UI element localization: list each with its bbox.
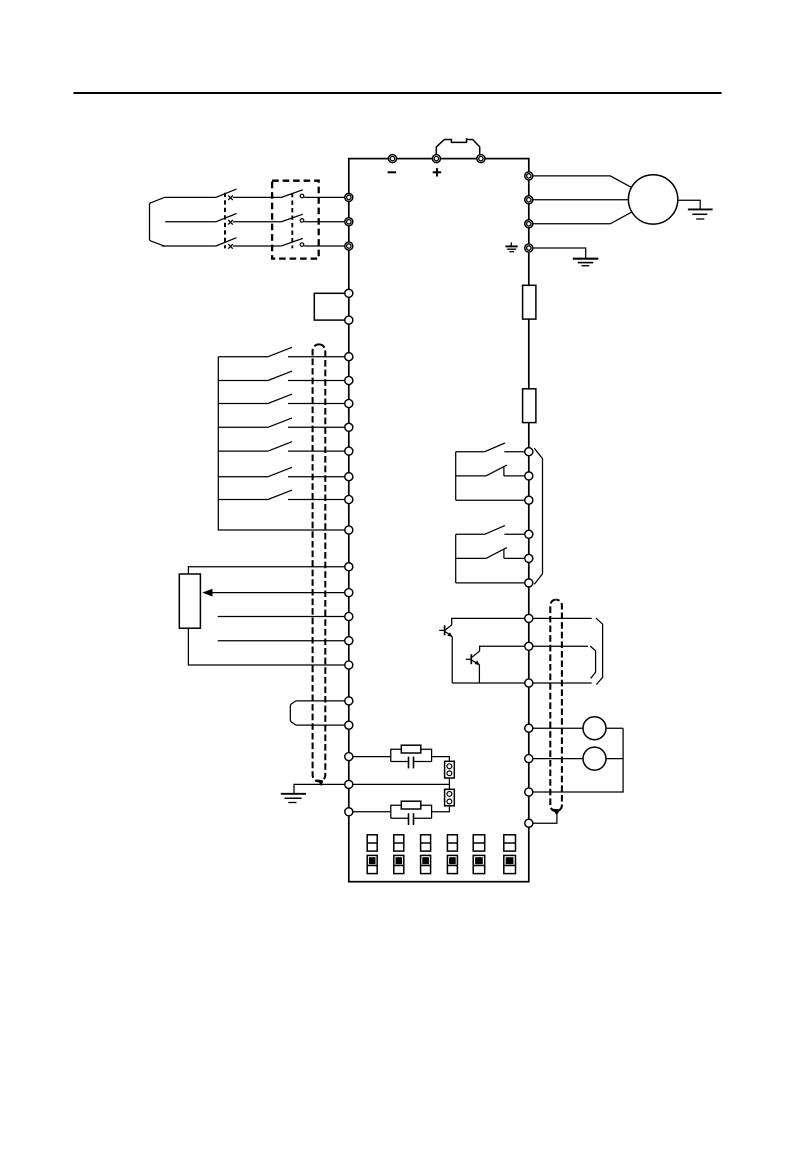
wire terminal B to RC filter 2	[353, 811, 391, 813]
ammeter	[583, 747, 606, 770]
wire potentiometer top to terminal 10	[188, 567, 344, 574]
capacitor C1 (RC filter 1)	[409, 757, 414, 769]
wire MCCB pole 1 to contactor	[233, 196, 281, 198]
wire relay 2 NO to terminal	[504, 533, 524, 535]
three-phase source bracket	[150, 197, 166, 246]
wire switch S4 to terminal	[288, 426, 345, 428]
wire analog input terminal 1	[218, 640, 345, 642]
terminal N (minus)	[388, 155, 396, 163]
wire digital input 2	[218, 380, 268, 382]
terminal P/B	[477, 155, 485, 163]
terminal meter common	[525, 788, 533, 796]
RC filter 2 parallel loop	[391, 805, 432, 818]
wire MCCB pole 2 to contactor	[233, 221, 281, 223]
wire relay 1 NO to terminal RA	[504, 451, 524, 453]
wire relay 2 common	[456, 582, 525, 584]
wire S-phase input	[165, 221, 216, 223]
terminal CM	[345, 316, 353, 324]
contactor MC pole 3	[281, 238, 304, 246]
capacitor C2 (RC filter 2)	[409, 813, 414, 825]
terminal RC	[525, 496, 533, 504]
wire jumper J1 to jumper J2	[448, 778, 450, 789]
shield drain arrow (control cable)	[317, 779, 323, 786]
label minus	[388, 171, 397, 173]
terminal B	[345, 808, 353, 816]
wire T-phase input	[162, 245, 216, 247]
DIP switch 1 lower	[367, 855, 377, 873]
DIP switch 3 lower	[421, 855, 431, 873]
terminal RB	[525, 472, 533, 480]
motor M	[628, 175, 677, 224]
wire motor frame to earth	[678, 200, 700, 209]
terminal RM	[345, 423, 353, 431]
DIP switch 2 upper	[394, 835, 404, 851]
terminal PE	[525, 244, 533, 252]
wire relay 1 NO left segment	[456, 451, 485, 453]
terminal RL	[345, 447, 353, 455]
switch S2 (reverse run)	[268, 371, 292, 380]
contactor MC pole 2	[281, 214, 304, 222]
wire relay 1 NC left segment	[456, 475, 486, 477]
relay 1 contact RB (NC blade and stop bar)	[486, 465, 507, 476]
terminal relay2 common	[525, 579, 533, 587]
MCCB mechanical linkage (dashed)	[224, 193, 226, 249]
DIP switch 4 upper	[447, 835, 457, 851]
DIP switch 4 lower	[447, 855, 457, 873]
open collector output bracket (outer)	[596, 618, 603, 685]
wire RUN terminal to Q1 collector	[452, 618, 525, 625]
wire SE common bus	[452, 682, 525, 684]
wire jumper J2 to RC filter 2	[432, 806, 450, 812]
wire switch S1 to terminal	[288, 356, 345, 358]
RC filter 1 parallel loop	[391, 749, 432, 761]
contactor enclosure (dashed box)	[272, 181, 319, 259]
DIP switch 2 lower	[394, 855, 404, 873]
circuit breaker MCCB pole 2	[216, 214, 237, 225]
wire middle common to jumper blocks	[353, 783, 450, 785]
wire U to motor	[533, 176, 632, 188]
terminal STR	[345, 376, 353, 384]
DIP switch 6 lower	[504, 855, 516, 873]
resistor (RC filter 1)	[401, 745, 421, 753]
terminal T/L3	[345, 242, 353, 250]
braking resistor R2 on P line	[523, 389, 536, 423]
wire relay 1 common	[456, 499, 525, 501]
wire analog common to earth	[294, 784, 345, 793]
DIP switch 5 lower	[473, 855, 485, 873]
wire contactor pole 3 to terminal T	[304, 245, 345, 247]
wire relay 1 NC to terminal RB	[504, 475, 525, 477]
switch S1 (forward run)	[268, 347, 292, 356]
earth ground at PE wire	[573, 259, 599, 266]
wire meter return bus	[533, 728, 623, 792]
wire contactor pole 1 to terminal R	[304, 196, 345, 198]
terminal FM	[525, 724, 533, 732]
wire FM terminal to frequency meter	[533, 727, 583, 729]
earth ground at motor	[688, 209, 713, 219]
wire contactor pole 2 to terminal S	[304, 221, 345, 223]
terminal 10	[345, 563, 353, 571]
control sink/source jumper box	[314, 293, 349, 320]
relay 2 contact (NC blade and stop bar)	[486, 548, 507, 559]
terminal STF	[345, 353, 353, 361]
DC bus link jumper between P1 and P	[436, 138, 479, 156]
terminal W	[525, 220, 533, 228]
relay 1 contact RA (NO blade)	[485, 443, 505, 452]
braking resistor R1 on P line	[523, 285, 536, 319]
terminal AM	[525, 755, 533, 763]
wire relay 2 NO left segment	[456, 533, 485, 535]
terminal middle common	[345, 780, 353, 788]
terminal 5	[345, 661, 353, 669]
wire R-phase input	[165, 196, 216, 198]
wiper arrowhead	[202, 589, 212, 597]
wire ammeter to return bus	[606, 758, 623, 760]
wire digital input 5	[218, 450, 268, 452]
jumper block J1	[445, 761, 455, 778]
wire V to motor	[533, 199, 629, 201]
wire terminal A to RC filter 1	[353, 756, 391, 758]
label plus	[433, 168, 442, 176]
terminal 2	[345, 589, 353, 597]
switch S7 (reset)	[268, 490, 292, 499]
terminal JOG	[345, 473, 353, 481]
terminal pulse B	[345, 721, 353, 729]
switch S6 (jog)	[268, 467, 292, 476]
shielded cable indication (control inputs, dashed capsule)	[313, 344, 326, 781]
wire pulse input B	[296, 724, 345, 726]
wire switch S7 to terminal	[288, 499, 345, 501]
wire digital input 3	[218, 403, 268, 405]
terminal RES	[345, 495, 353, 503]
wire W to motor	[533, 212, 632, 224]
wire relay 2 NC to terminal	[504, 557, 525, 559]
wire potentiometer wiper to terminal 2	[212, 592, 345, 594]
switch S5 (low speed)	[268, 442, 292, 451]
wire FU terminal to Q2 collector	[480, 646, 525, 651]
terminal pulse A	[345, 697, 353, 705]
circuit breaker MCCB pole 1	[216, 189, 237, 200]
terminal S/L2	[345, 218, 353, 226]
terminal relay2 NC	[525, 554, 533, 562]
wire shield drain to ground terminal	[533, 815, 557, 824]
chassis ground mark beside PE terminal	[505, 242, 517, 251]
contactor mechanical linkage (dashed)	[291, 193, 293, 248]
terminal FU	[525, 642, 533, 650]
terminal P1 (plus)	[432, 155, 440, 163]
shielded cable indication (meter leads, dashed capsule)	[550, 600, 562, 812]
wire digital input 7	[218, 499, 268, 501]
switch S3 (high speed)	[268, 394, 292, 403]
DIP switch 3 upper	[421, 835, 431, 851]
terminal 1	[345, 637, 353, 645]
wire MCCB pole 3 to contactor	[233, 245, 281, 247]
wire relay 2 NC left segment	[456, 557, 486, 559]
resistor (RC filter 2)	[401, 801, 421, 809]
wire FU external	[533, 645, 588, 647]
terminal shield ground	[525, 819, 533, 827]
wire RUN external	[533, 617, 592, 619]
wire switch S6 to terminal	[288, 476, 345, 478]
frequency meter	[583, 717, 606, 740]
wire analog input terminal 4	[218, 616, 345, 618]
earth ground (control common)	[281, 794, 306, 803]
transistor Q1 (open collector output)	[439, 625, 452, 637]
wire digital input 1	[218, 356, 268, 358]
terminal R/L1	[345, 193, 353, 201]
relay output group bracket	[534, 448, 542, 584]
terminal PLC	[345, 289, 353, 297]
jumper block J2	[445, 789, 455, 806]
DIP switch 6 upper	[504, 835, 516, 851]
wire switch S5 to terminal	[288, 450, 345, 452]
wire digital input 4	[218, 426, 268, 428]
wire relay 2 left bus	[455, 534, 457, 583]
terminal RUN	[525, 614, 533, 622]
wire SE external	[533, 682, 592, 684]
digital input common bus wire	[218, 357, 344, 530]
page header rule	[74, 92, 722, 94]
terminal SD (input common)	[345, 526, 353, 534]
switch S4 (middle speed)	[268, 418, 292, 427]
wire AM terminal to ammeter	[533, 758, 583, 760]
terminal relay2 NO	[525, 530, 533, 538]
terminal 4	[345, 612, 353, 620]
twisted pair bracket (pulse terminals)	[290, 701, 296, 725]
shield drain arrow (meter cable)	[553, 809, 561, 816]
DIP switch 5 upper	[473, 835, 485, 851]
contactor MC pole 1	[281, 190, 304, 198]
potentiometer (frequency setting)	[179, 574, 200, 628]
wire RC filter 1 to jumper block J1	[432, 757, 450, 762]
wire switch S2 to terminal	[288, 380, 345, 382]
DIP switch 1 upper	[367, 835, 377, 851]
wire relay 1 left bus	[455, 452, 457, 501]
wire digital input 6	[218, 476, 268, 478]
open collector output bracket (inner)	[590, 646, 595, 678]
wire PE terminal to earth	[533, 248, 586, 259]
inverter main block outline	[349, 159, 529, 882]
wire frequency meter to return bus	[606, 727, 623, 729]
wire Q1 emitter to SE bus	[451, 637, 453, 684]
terminal V	[525, 196, 533, 204]
circuit breaker MCCB pole 3	[216, 238, 237, 249]
terminal RH	[345, 399, 353, 407]
terminal A	[345, 753, 353, 761]
transistor Q2 (open collector output)	[466, 651, 480, 665]
wire switch S3 to terminal	[288, 403, 345, 405]
wire Q2 emitter to SE bus	[478, 665, 480, 683]
terminal RA	[525, 448, 533, 456]
terminal SE	[525, 679, 533, 687]
wire potentiometer bottom to terminal 5	[188, 628, 344, 665]
terminal U	[525, 172, 533, 180]
relay 2 contact (NO blade)	[485, 526, 505, 535]
wire pulse input A	[296, 700, 345, 702]
